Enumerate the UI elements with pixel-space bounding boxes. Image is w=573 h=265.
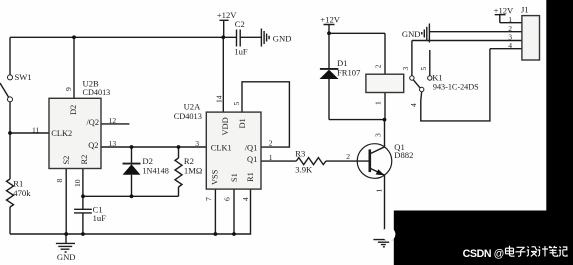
svg-text:5: 5 (419, 67, 428, 71)
svg-text:S2: S2 (62, 156, 71, 165)
svg-text:D2: D2 (69, 105, 78, 115)
svg-text:8: 8 (55, 179, 64, 183)
svg-text:CD4013: CD4013 (83, 87, 111, 97)
svg-text:1: 1 (508, 15, 512, 24)
svg-text:+12V: +12V (320, 15, 340, 25)
svg-text:4: 4 (241, 197, 250, 201)
svg-text:CSDN: CSDN (463, 248, 492, 260)
svg-text:13: 13 (109, 139, 117, 148)
svg-text:CLK1: CLK1 (211, 143, 232, 152)
svg-text:R3: R3 (295, 148, 305, 158)
svg-text:U2A: U2A (184, 102, 202, 112)
svg-text:FR107: FR107 (337, 68, 361, 78)
svg-text:R1: R1 (13, 178, 23, 188)
svg-text:1: 1 (269, 153, 273, 162)
svg-text:9: 9 (64, 87, 73, 91)
svg-text:GND: GND (402, 29, 421, 39)
svg-text:D882: D882 (394, 150, 413, 160)
svg-text:D1: D1 (337, 58, 348, 68)
svg-text:11: 11 (32, 125, 40, 134)
svg-text:R2: R2 (184, 156, 194, 166)
svg-text:C2: C2 (235, 19, 245, 29)
svg-text:Q2: Q2 (88, 141, 98, 150)
svg-text:2: 2 (346, 152, 350, 161)
svg-text:Q1: Q1 (247, 155, 257, 164)
svg-text:10: 10 (73, 179, 82, 187)
svg-text:R2: R2 (80, 155, 89, 165)
svg-text:CLK2: CLK2 (51, 129, 72, 138)
svg-text:S1: S1 (230, 173, 239, 182)
svg-text:D1: D1 (238, 118, 247, 128)
svg-text:@: @ (494, 248, 505, 260)
svg-text:2: 2 (269, 138, 273, 147)
svg-text:D2: D2 (142, 156, 153, 166)
svg-text:1MΩ: 1MΩ (184, 166, 202, 176)
svg-text:J1: J1 (521, 5, 529, 15)
svg-text:1N4148: 1N4148 (142, 166, 169, 176)
svg-text:14: 14 (214, 95, 223, 103)
svg-text:GND: GND (273, 33, 292, 43)
svg-text:/Q2: /Q2 (86, 118, 99, 127)
svg-text:4: 4 (409, 103, 418, 107)
svg-text:1: 1 (374, 101, 383, 105)
svg-text:VDD: VDD (221, 117, 230, 135)
svg-text:1: 1 (374, 189, 383, 193)
svg-text:470k: 470k (13, 188, 31, 198)
svg-text:943-1C-24DS: 943-1C-24DS (433, 82, 479, 92)
svg-text:7: 7 (204, 197, 213, 201)
svg-text:1uF: 1uF (234, 46, 248, 56)
svg-text:SW1: SW1 (15, 72, 32, 82)
svg-text:/Q1: /Q1 (245, 143, 258, 152)
svg-text:2: 2 (374, 64, 383, 68)
svg-text:GND: GND (57, 252, 76, 262)
svg-text:3.9K: 3.9K (295, 164, 313, 174)
svg-text:4: 4 (508, 41, 512, 50)
svg-text:R1: R1 (246, 172, 255, 182)
svg-text:12: 12 (109, 116, 117, 125)
svg-text:2: 2 (508, 24, 512, 33)
svg-text:5: 5 (232, 102, 241, 106)
svg-text:3: 3 (195, 139, 199, 148)
svg-text:1uF: 1uF (93, 213, 107, 223)
svg-text:3: 3 (401, 67, 410, 71)
svg-text:CD4013: CD4013 (174, 111, 202, 121)
svg-text:6: 6 (223, 197, 232, 201)
svg-text:3: 3 (374, 133, 383, 137)
svg-text:VSS: VSS (211, 169, 220, 185)
